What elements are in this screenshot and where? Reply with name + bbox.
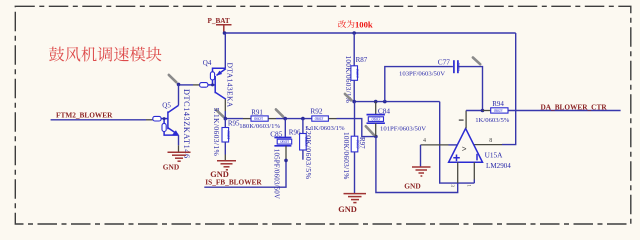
base series resistor pill xyxy=(153,116,161,121)
wire node Z horizontal xyxy=(354,101,440,103)
svg-text:C77: C77 xyxy=(438,58,451,67)
resistor R87 vertical xyxy=(344,33,368,103)
op-amp U15A xyxy=(449,128,512,170)
wire main node to R91 xyxy=(225,118,243,120)
bias resistor pill xyxy=(162,123,166,131)
svg-text:U15A: U15A xyxy=(485,151,504,160)
node Q4 collector junction xyxy=(224,117,228,121)
svg-text:0603: 0603 xyxy=(315,116,325,121)
wire IS_FB_BLOWER xyxy=(204,160,286,187)
ground at op-amp pin 4 xyxy=(412,167,431,176)
emitter diagonal with arrow xyxy=(168,128,178,135)
node R87/R97 junction xyxy=(352,100,356,104)
node R96 branch xyxy=(301,117,305,121)
svg-text:GND: GND xyxy=(404,182,420,191)
plus marker xyxy=(453,155,460,162)
slash mark near Q4 collector node xyxy=(216,110,223,117)
pin 1 stub (OUT) xyxy=(473,162,475,179)
wire IN- to feedback node xyxy=(466,110,482,112)
resistor R95 vertical xyxy=(212,108,240,161)
svg-text:5.1K/0603/1%: 5.1K/0603/1% xyxy=(305,125,345,132)
node feedback junction xyxy=(481,109,485,113)
svg-text:Q5: Q5 xyxy=(162,101,171,109)
svg-text:IS_FB_BLOWER: IS_FB_BLOWER xyxy=(205,178,262,187)
svg-text:100k: 100k xyxy=(355,19,373,29)
transistor Q4 xyxy=(200,59,226,99)
svg-text:101PF/0603/50V: 101PF/0603/50V xyxy=(380,126,426,133)
svg-text:0603: 0603 xyxy=(254,116,264,121)
collector diagonal xyxy=(168,105,179,112)
svg-text:R87: R87 xyxy=(356,56,368,64)
svg-text:5.1K/0603/1%: 5.1K/0603/1% xyxy=(212,108,221,157)
svg-text:GND: GND xyxy=(338,205,357,214)
wire C77 left riser xyxy=(385,67,453,102)
wire Q4 collector down xyxy=(224,99,226,111)
svg-text:DA_BLOWER_CTR: DA_BLOWER_CTR xyxy=(541,103,608,112)
ground under R97 xyxy=(344,194,367,203)
svg-text:P_BAT: P_BAT xyxy=(208,17,230,25)
resistor R92 xyxy=(305,107,345,132)
pin 2 stub (IN-) xyxy=(465,111,467,129)
svg-text:LM2904: LM2904 xyxy=(486,162,511,170)
svg-text:103PF/0603/50V: 103PF/0603/50V xyxy=(399,70,445,77)
svg-text:100K/0603/1%: 100K/0603/1% xyxy=(342,132,351,180)
node C77 branch junction xyxy=(383,100,387,104)
wire Q4 base xyxy=(179,84,194,86)
svg-text:105PF/0603/50V: 105PF/0603/50V xyxy=(273,149,281,199)
svg-text:>: > xyxy=(462,144,467,153)
svg-text:R94: R94 xyxy=(492,100,504,108)
wire R91 to R92 xyxy=(268,118,276,120)
resistor R97 vertical xyxy=(342,102,366,194)
svg-text:0603: 0603 xyxy=(494,108,504,113)
node R87 top junction xyxy=(352,31,356,35)
bias resistor wires xyxy=(213,68,226,85)
svg-text:Q4: Q4 xyxy=(203,59,212,67)
minus marker (rotated) xyxy=(476,154,478,161)
capacitor C77 xyxy=(399,58,461,78)
svg-text:R92: R92 xyxy=(310,107,323,116)
svg-text:DTA143EKA: DTA143EKA xyxy=(226,63,235,108)
wire C77 right to IN- riser xyxy=(458,67,483,111)
wire Q5 collector up xyxy=(178,84,180,105)
wire pin4 to ground xyxy=(420,145,422,167)
resistor R94 xyxy=(475,100,510,124)
base bar xyxy=(167,111,169,129)
svg-text:3: 3 xyxy=(449,185,454,188)
resistor R91 xyxy=(239,109,280,130)
slash mark near R87 bottom node xyxy=(345,94,352,100)
transistor Q5 xyxy=(153,101,179,135)
base series resistor pill xyxy=(200,83,208,88)
bias resistor wires xyxy=(164,119,178,136)
slash mark near C85 node xyxy=(276,109,283,116)
emitter diagonal with arrow xyxy=(217,69,226,76)
svg-text:0603: 0603 xyxy=(372,117,382,122)
pin 3 stub (IN+) xyxy=(457,162,459,183)
wire C84 bottom to op-amp IN+ xyxy=(376,137,458,193)
wire P_BAT down to Q4 emitter xyxy=(224,33,226,68)
svg-text:0603: 0603 xyxy=(226,131,231,141)
svg-text:220K/0603/5%: 220K/0603/5% xyxy=(304,127,313,180)
collector diagonal xyxy=(215,92,226,99)
capacitor C85 xyxy=(270,119,292,200)
wire node Z down to op-amp output wire xyxy=(440,102,475,184)
slash mark near C84 bottom xyxy=(366,126,374,135)
wire R92 right jog to C84 bottom xyxy=(328,118,336,120)
module title xyxy=(49,47,161,62)
svg-text:0603: 0603 xyxy=(355,69,360,79)
wire FTM2_BLOWER xyxy=(51,119,146,121)
minus marker at pin 2 xyxy=(459,119,464,121)
wire output DA_BLOWER_CTR xyxy=(508,110,621,112)
wire P_BAT rail top xyxy=(225,32,516,34)
bias resistor pill xyxy=(210,72,214,80)
capacitor C84 xyxy=(367,102,427,137)
node C85 branch xyxy=(283,117,287,121)
svg-text:4: 4 xyxy=(423,138,426,144)
node P_BAT junction xyxy=(223,31,227,35)
node C84 bottom junction xyxy=(374,135,378,139)
wire P_BAT vertical right to pin 8 xyxy=(502,33,516,145)
svg-text:DTC143ZKAT146: DTC143ZKAT146 xyxy=(182,89,191,159)
wire pin 8 stub xyxy=(474,144,502,146)
ground under R95 xyxy=(217,161,236,170)
slash mark near Q5 collector xyxy=(169,75,177,82)
annotation: 改为100k xyxy=(338,20,354,28)
resistor R96 vertical xyxy=(289,119,313,180)
ground under Q5 xyxy=(168,152,191,161)
wire Q5 emitter down xyxy=(178,135,180,145)
svg-text:FTM2_BLOWER: FTM2_BLOWER xyxy=(56,111,113,120)
svg-text:GND: GND xyxy=(163,163,179,172)
svg-text:R97: R97 xyxy=(358,137,366,149)
base bar xyxy=(214,76,216,93)
svg-text:0603: 0603 xyxy=(280,139,290,144)
node C84 top junction xyxy=(374,100,378,104)
svg-text:8: 8 xyxy=(489,138,492,144)
node Q4 base / Q5 collector xyxy=(177,83,181,87)
power symbol P_BAT xyxy=(208,17,232,33)
svg-text:1K/0603/5%: 1K/0603/5% xyxy=(475,117,510,124)
svg-text:1: 1 xyxy=(465,185,470,188)
slash mark near C77 right xyxy=(473,58,480,65)
